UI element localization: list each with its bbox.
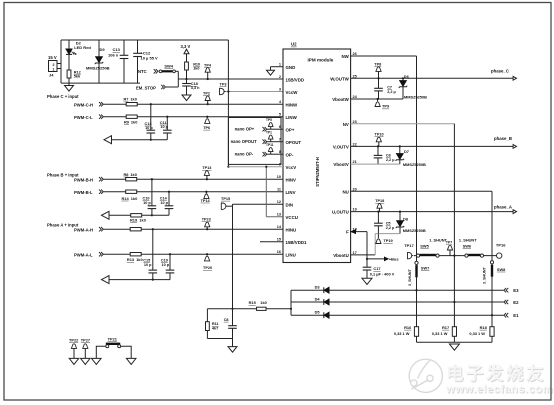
svg-text:TP13: TP13 — [202, 166, 211, 170]
svg-text:HINV: HINV — [286, 177, 297, 182]
svg-text:电子发烧友: 电子发烧友 — [446, 364, 546, 384]
svg-text:+Bus: +Bus — [389, 257, 400, 262]
svg-text:17: 17 — [353, 251, 357, 255]
svg-text:1k0: 1k0 — [130, 172, 137, 177]
svg-text:NW: NW — [341, 54, 349, 59]
svg-text:3_SHUNT: 3_SHUNT — [482, 266, 486, 284]
svg-text:R18: R18 — [480, 325, 488, 330]
svg-text:MMSZ5250B: MMSZ5250B — [403, 162, 426, 167]
svg-text:5: 5 — [279, 113, 281, 117]
svg-text:TP6: TP6 — [203, 126, 210, 130]
svg-text:D9: D9 — [100, 47, 106, 52]
svg-text:22: 22 — [353, 142, 357, 146]
svg-text:phase_B: phase_B — [494, 136, 512, 141]
svg-text:U2: U2 — [291, 42, 297, 47]
svg-text:HINW: HINW — [286, 102, 299, 107]
svg-text:TP17: TP17 — [404, 243, 414, 248]
svg-text:C5: C5 — [386, 222, 391, 226]
svg-text:20: 20 — [353, 187, 357, 191]
svg-text:TP3: TP3 — [220, 82, 227, 86]
svg-text:nano OP-: nano OP- — [235, 152, 254, 157]
svg-text:0,33 1 W: 0,33 1 W — [469, 331, 485, 336]
svg-text:19: 19 — [353, 208, 357, 212]
svg-text:V,OUTV: V,OUTV — [333, 145, 349, 150]
svg-text:TP8: TP8 — [374, 62, 381, 66]
svg-text:TP22: TP22 — [69, 337, 79, 342]
svg-text:SW7: SW7 — [421, 266, 429, 271]
svg-text:C13: C13 — [145, 122, 152, 126]
svg-text:www.elecfans.com: www.elecfans.com — [445, 384, 553, 396]
svg-text:15 V: 15 V — [48, 55, 57, 60]
svg-text:TP15: TP15 — [221, 197, 230, 201]
svg-text:LINW: LINW — [286, 115, 298, 120]
svg-text:11: 11 — [277, 188, 281, 192]
svg-text:E1: E1 — [513, 313, 519, 318]
svg-text:10: 10 — [277, 175, 281, 179]
svg-text:0,33 1 W: 0,33 1 W — [394, 331, 410, 336]
svg-text:NV: NV — [343, 122, 349, 127]
svg-text:C10: C10 — [143, 197, 150, 201]
svg-text:2,2 µ: 2,2 µ — [386, 158, 395, 162]
svg-text:1k0: 1k0 — [131, 120, 138, 125]
svg-text:25: 25 — [353, 74, 357, 78]
svg-text:PWM-B-L: PWM-B-L — [74, 190, 93, 195]
svg-text:C19: C19 — [161, 259, 168, 263]
svg-text:PWM-B-H: PWM-B-H — [74, 177, 93, 182]
svg-text:16: 16 — [277, 250, 281, 254]
svg-text:2: 2 — [53, 63, 55, 67]
svg-text:10 µ 55 V: 10 µ 55 V — [141, 56, 159, 61]
svg-text:13: 13 — [277, 213, 281, 217]
svg-text:MMSZ5250B: MMSZ5250B — [404, 95, 427, 100]
svg-text:OP-: OP- — [286, 152, 294, 157]
svg-text:15B/VDD1: 15B/VDD1 — [286, 240, 308, 245]
svg-text:1k0: 1k0 — [139, 218, 146, 223]
svg-text:TP1: TP1 — [266, 131, 272, 135]
svg-text:TP11: TP11 — [266, 143, 274, 147]
svg-text:1: 1 — [53, 68, 55, 72]
svg-text:TP19: TP19 — [383, 238, 393, 243]
svg-text:TP2: TP2 — [203, 91, 210, 95]
svg-text:J4: J4 — [49, 73, 54, 78]
svg-text:PWM-C-H: PWM-C-H — [74, 102, 93, 107]
svg-text:0,33 1 W: 0,33 1 W — [432, 331, 448, 336]
svg-text:1k0: 1k0 — [130, 97, 137, 102]
svg-text:TP21: TP21 — [108, 336, 118, 341]
svg-text:5k6: 5k6 — [74, 74, 80, 78]
svg-text:C11: C11 — [160, 121, 167, 125]
svg-text:C13: C13 — [113, 47, 121, 52]
svg-text:NU: NU — [342, 189, 348, 194]
svg-text:SW8: SW8 — [497, 267, 506, 272]
svg-text:nano OP+: nano OP+ — [235, 127, 255, 132]
svg-text:TP18: TP18 — [375, 199, 384, 203]
svg-text:2,2 µ: 2,2 µ — [386, 226, 395, 230]
svg-text:1: 1 — [279, 63, 281, 67]
svg-text:R19: R19 — [130, 218, 138, 223]
svg-text:3_SHUNT: 3_SHUNT — [408, 268, 412, 286]
svg-text:IPM module: IPM module — [308, 58, 334, 63]
svg-text:D4: D4 — [315, 296, 321, 301]
svg-text:12: 12 — [277, 200, 281, 204]
svg-text:C17: C17 — [373, 266, 380, 271]
svg-text:R17: R17 — [442, 325, 449, 330]
svg-text:C15: C15 — [143, 259, 150, 263]
svg-text:VbootW: VbootW — [332, 97, 349, 102]
svg-text:R8: R8 — [124, 172, 130, 177]
svg-text:TP14: TP14 — [201, 199, 211, 203]
svg-text:W,OUTW: W,OUTW — [330, 76, 349, 81]
svg-text:10 p: 10 p — [160, 201, 168, 205]
svg-text:TP4: TP4 — [204, 63, 212, 67]
svg-text:OP+: OP+ — [286, 127, 295, 132]
svg-text:R7: R7 — [124, 97, 129, 102]
svg-text:10 p: 10 p — [145, 126, 153, 130]
svg-text:VbootV: VbootV — [333, 162, 348, 167]
svg-text:TP23: TP23 — [202, 217, 211, 221]
svg-text:2,2 µ: 2,2 µ — [387, 90, 396, 94]
svg-text:E2: E2 — [513, 300, 519, 305]
svg-text:phase_A: phase_A — [494, 204, 512, 209]
svg-text:TP5: TP5 — [266, 118, 272, 122]
svg-text:3,3 n: 3,3 n — [191, 86, 200, 90]
svg-text:HINU: HINU — [286, 227, 297, 232]
svg-text:GND: GND — [286, 65, 296, 70]
svg-text:U,OUTU: U,OUTU — [332, 210, 349, 215]
svg-text:VccV: VccV — [286, 165, 297, 170]
svg-text:1k0: 1k0 — [136, 257, 143, 262]
svg-text:D6: D6 — [404, 74, 410, 79]
svg-text:106 n: 106 n — [108, 52, 119, 57]
svg-text:C14: C14 — [160, 197, 168, 201]
svg-text:26: 26 — [353, 52, 357, 56]
svg-text:1k0: 1k0 — [260, 300, 267, 305]
svg-text:EM_STOP: EM_STOP — [136, 85, 156, 90]
svg-text:TP27: TP27 — [81, 337, 90, 342]
svg-text:1k0: 1k0 — [131, 196, 138, 201]
svg-text:VbootU: VbootU — [333, 253, 349, 258]
svg-text:Phase C + input: Phase C + input — [47, 94, 79, 99]
svg-text:LINV: LINV — [286, 190, 296, 195]
svg-text:10 p: 10 p — [160, 125, 168, 129]
svg-text:2: 2 — [279, 75, 281, 79]
svg-text:TP10: TP10 — [375, 133, 384, 137]
svg-text:D5: D5 — [315, 310, 321, 315]
svg-text:R16: R16 — [404, 325, 412, 330]
svg-text:LED Red: LED Red — [74, 45, 91, 50]
svg-text:E3: E3 — [513, 288, 519, 293]
svg-text:MMSZ5250B: MMSZ5250B — [86, 65, 110, 70]
svg-text:VccW: VccW — [286, 90, 299, 95]
svg-text:MMSZ5250B: MMSZ5250B — [403, 228, 426, 233]
svg-text:TP9: TP9 — [382, 104, 390, 109]
svg-text:0,1 µF ∙ 400 V: 0,1 µF ∙ 400 V — [370, 272, 395, 277]
svg-text:R13: R13 — [127, 257, 135, 262]
svg-text:23: 23 — [353, 120, 357, 124]
svg-text:SW6: SW6 — [463, 243, 472, 248]
svg-text:TP7: TP7 — [446, 241, 452, 245]
svg-text:15: 15 — [277, 238, 281, 242]
svg-text:10 p: 10 p — [162, 263, 170, 267]
svg-text:D7: D7 — [404, 149, 409, 154]
svg-text:R14: R14 — [122, 196, 130, 201]
svg-text:STIPN2M50T-H: STIPN2M50T-H — [315, 157, 320, 187]
svg-text:NTC: NTC — [138, 69, 147, 74]
svg-text:TP20: TP20 — [203, 266, 212, 270]
svg-text:PWM-A-H: PWM-A-H — [74, 227, 93, 232]
svg-text:SW4: SW4 — [164, 63, 173, 68]
svg-text:SW5: SW5 — [420, 243, 429, 248]
svg-text:1k0: 1k0 — [193, 67, 199, 71]
svg-text:OPOUT: OPOUT — [286, 140, 302, 145]
svg-text:C6: C6 — [386, 154, 391, 158]
svg-text:D8: D8 — [403, 216, 409, 221]
svg-text:phase_C: phase_C — [491, 69, 509, 74]
svg-text:R9: R9 — [124, 120, 130, 125]
svg-text:nano OPOUT: nano OPOUT — [231, 139, 257, 144]
svg-text:TP16: TP16 — [496, 243, 506, 248]
svg-text:10 p: 10 p — [144, 263, 152, 267]
svg-text:4k7: 4k7 — [212, 326, 218, 330]
svg-text:3,3 V: 3,3 V — [181, 44, 191, 49]
svg-text:R15: R15 — [249, 300, 257, 305]
svg-text:DIN: DIN — [286, 202, 294, 207]
svg-text:C7: C7 — [387, 85, 392, 89]
svg-text:15B/VDD: 15B/VDD — [286, 77, 305, 82]
svg-text:PWM-A-L: PWM-A-L — [74, 252, 93, 257]
svg-text:C8: C8 — [224, 318, 229, 322]
svg-text:10 p: 10 p — [143, 201, 151, 205]
svg-text:3: 3 — [279, 88, 281, 92]
svg-text:F: F — [346, 230, 349, 235]
svg-text:1_SHUNT: 1_SHUNT — [429, 238, 447, 243]
svg-text:VCCU: VCCU — [286, 215, 298, 220]
svg-text:21: 21 — [353, 160, 357, 164]
svg-text:PWM-C-L: PWM-C-L — [74, 115, 93, 120]
svg-text:D3: D3 — [315, 285, 321, 290]
svg-text:1_SHUNT: 1_SHUNT — [459, 238, 477, 243]
svg-text:LINU: LINU — [286, 252, 296, 257]
